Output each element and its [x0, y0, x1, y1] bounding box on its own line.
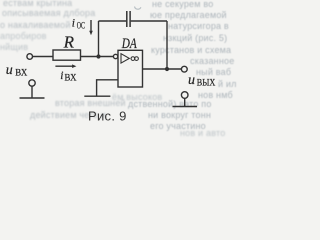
current arrow i_oc (down) — [90, 20, 92, 32]
svg-text:u: u — [188, 73, 195, 88]
bleed-through / neighbouring page text (decorative background) — [3, 0, 72, 8]
op-amp triangle symbol — [121, 54, 129, 63]
lower left common terminal — [29, 80, 35, 86]
input terminal (upper left) — [27, 54, 33, 60]
svg-text:i: i — [72, 17, 75, 29]
svg-text:i: i — [60, 70, 63, 82]
svg-text:R: R — [63, 33, 75, 52]
op-amp DA box — [118, 50, 143, 87]
svg-text:DA: DA — [121, 36, 137, 52]
capacitor C (feedback) — [127, 11, 130, 27]
stem lower right terminal — [184, 98, 186, 106]
wire op-amp output — [143, 68, 182, 70]
svg-text:ОС: ОС — [77, 21, 85, 31]
node dot (inverting input junction) — [96, 54, 100, 58]
lower right common terminal — [181, 92, 188, 99]
wire feedback top rail right — [131, 20, 167, 22]
output terminal (upper right) — [181, 66, 187, 72]
faint C smudge above capacitor — [135, 7, 141, 10]
svg-text:ВХ: ВХ — [65, 73, 77, 83]
svg-text:ВХ: ВХ — [15, 67, 27, 77]
svg-text:ВЫХ: ВЫХ — [197, 78, 216, 88]
current arrow i_vx (right, under resistor) — [55, 65, 73, 67]
wire feedback top rail left — [99, 20, 127, 22]
op-amp infinity symbol — [131, 57, 135, 61]
wire op-amp non-inverting input to ground — [97, 80, 118, 96]
wire feedback vertical right — [166, 21, 168, 69]
ground bar (op-amp non-inverting input) — [84, 95, 110, 97]
wire resistor to op-amp inverting input — [81, 56, 114, 58]
wire feedback vertical left — [98, 21, 100, 57]
resistor R — [53, 50, 81, 60]
op-amp inverting input bubble — [113, 54, 117, 58]
svg-text:Рис. 9: Рис. 9 — [88, 109, 127, 124]
svg-text:u: u — [6, 63, 13, 78]
common bar left — [20, 97, 45, 99]
node dot (output junction) — [165, 67, 169, 71]
wire input terminal to resistor — [33, 56, 53, 58]
common bar right — [173, 106, 198, 108]
stem lower left terminal — [31, 86, 33, 98]
